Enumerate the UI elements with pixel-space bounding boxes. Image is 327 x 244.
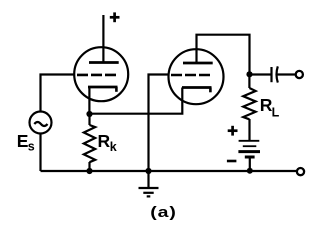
tube V1 grid (77, 74, 116, 77)
tube V1 envelope (74, 47, 128, 101)
resistor Rk (84, 114, 95, 171)
svg-text:k: k (110, 140, 117, 154)
wire: junction to capacitor (250, 73, 271, 75)
ground (139, 171, 159, 196)
label Es (17, 131, 35, 154)
tube V1 plate (89, 61, 119, 64)
wire: Es bottom to ground bus (39, 134, 41, 172)
B+ supply terminal + label (110, 12, 120, 22)
svg-text:L: L (272, 105, 280, 119)
wire: capacitor to output terminal (278, 73, 296, 75)
tube V1 cathode (88, 87, 118, 114)
junction node: plate/RL/cap (246, 71, 252, 77)
source Es (30, 112, 52, 134)
svg-text:(a): (a) (150, 204, 177, 221)
wire: ground bus (bottom rail) (41, 170, 297, 172)
tube V2 envelope (169, 49, 224, 104)
svg-text:s: s (28, 140, 35, 154)
label battery - (227, 160, 237, 163)
output terminal (bottom right) (297, 168, 304, 175)
wire: B+ supply lead to V1 plate (102, 15, 104, 62)
tube V2 cathode (182, 88, 212, 93)
svg-text:E: E (17, 131, 29, 151)
junction node: Rk bottom on ground bus (86, 168, 92, 174)
svg-text:R: R (98, 131, 111, 151)
capacitor C1 (272, 66, 278, 82)
battery B1 (238, 141, 260, 171)
wire: V2 grid to ground bus (149, 75, 169, 172)
label Rk (98, 131, 117, 154)
wire: RL to battery (248, 119, 250, 141)
junction node: grounded grid on bus (145, 168, 151, 174)
tube V2 plate (183, 62, 213, 65)
label battery + (228, 126, 238, 136)
resistor RL (243, 75, 255, 120)
wire: V1 cathode to V2 cathode (90, 88, 183, 114)
junction node: V1 cathode / Rk top (86, 111, 92, 117)
wire: V2 plate to RL/cap junction (197, 35, 250, 74)
label RL (260, 95, 280, 119)
wire: V1 grid to Es top (41, 75, 75, 112)
tube V2 grid (171, 74, 210, 77)
junction node: battery bottom on ground bus (247, 168, 253, 174)
output terminal (top right) (296, 71, 303, 78)
